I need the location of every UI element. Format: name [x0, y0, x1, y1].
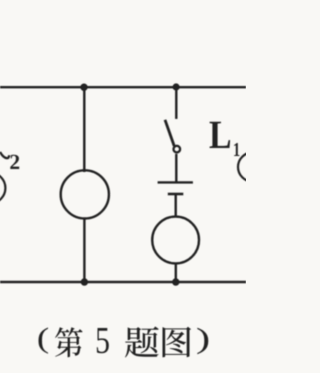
caption closing parenthesis	[197, 328, 208, 354]
node bottom-left junction	[81, 278, 88, 285]
caption digit 5	[97, 328, 109, 353]
switch pivot terminal	[174, 146, 181, 153]
node top-right junction	[173, 83, 180, 90]
switch blade	[165, 120, 174, 146]
wire left branch lower segment	[83, 218, 85, 282]
caption char 图	[163, 327, 192, 358]
node top-left junction	[80, 84, 87, 91]
wire switch to battery	[175, 154, 177, 183]
battery short plate (-)	[168, 193, 184, 196]
label L1 letter L	[210, 122, 231, 148]
label L2 swash tail of letter L	[0, 152, 9, 158]
component circle (battery branch)	[152, 217, 199, 264]
wire top rail	[0, 86, 246, 88]
lamp L1 (partial, right edge)	[238, 153, 267, 182]
lamp L2 (partial, left edge)	[0, 173, 5, 204]
component circle (left branch)	[61, 170, 109, 218]
battery long plate (+)	[158, 181, 193, 183]
caption opening parenthesis	[39, 328, 49, 354]
wire right branch upper segment	[175, 87, 177, 119]
label L1 subscript 1	[234, 143, 239, 156]
wire battery to meter	[174, 194, 176, 218]
wire meter to bottom rail	[175, 263, 177, 282]
caption char 题	[125, 327, 159, 358]
wire bottom rail	[0, 281, 246, 283]
wire left branch upper segment	[83, 87, 85, 172]
label L2 subscript 2	[10, 155, 19, 169]
caption char 第	[55, 327, 83, 357]
node bottom-right junction	[172, 278, 179, 285]
